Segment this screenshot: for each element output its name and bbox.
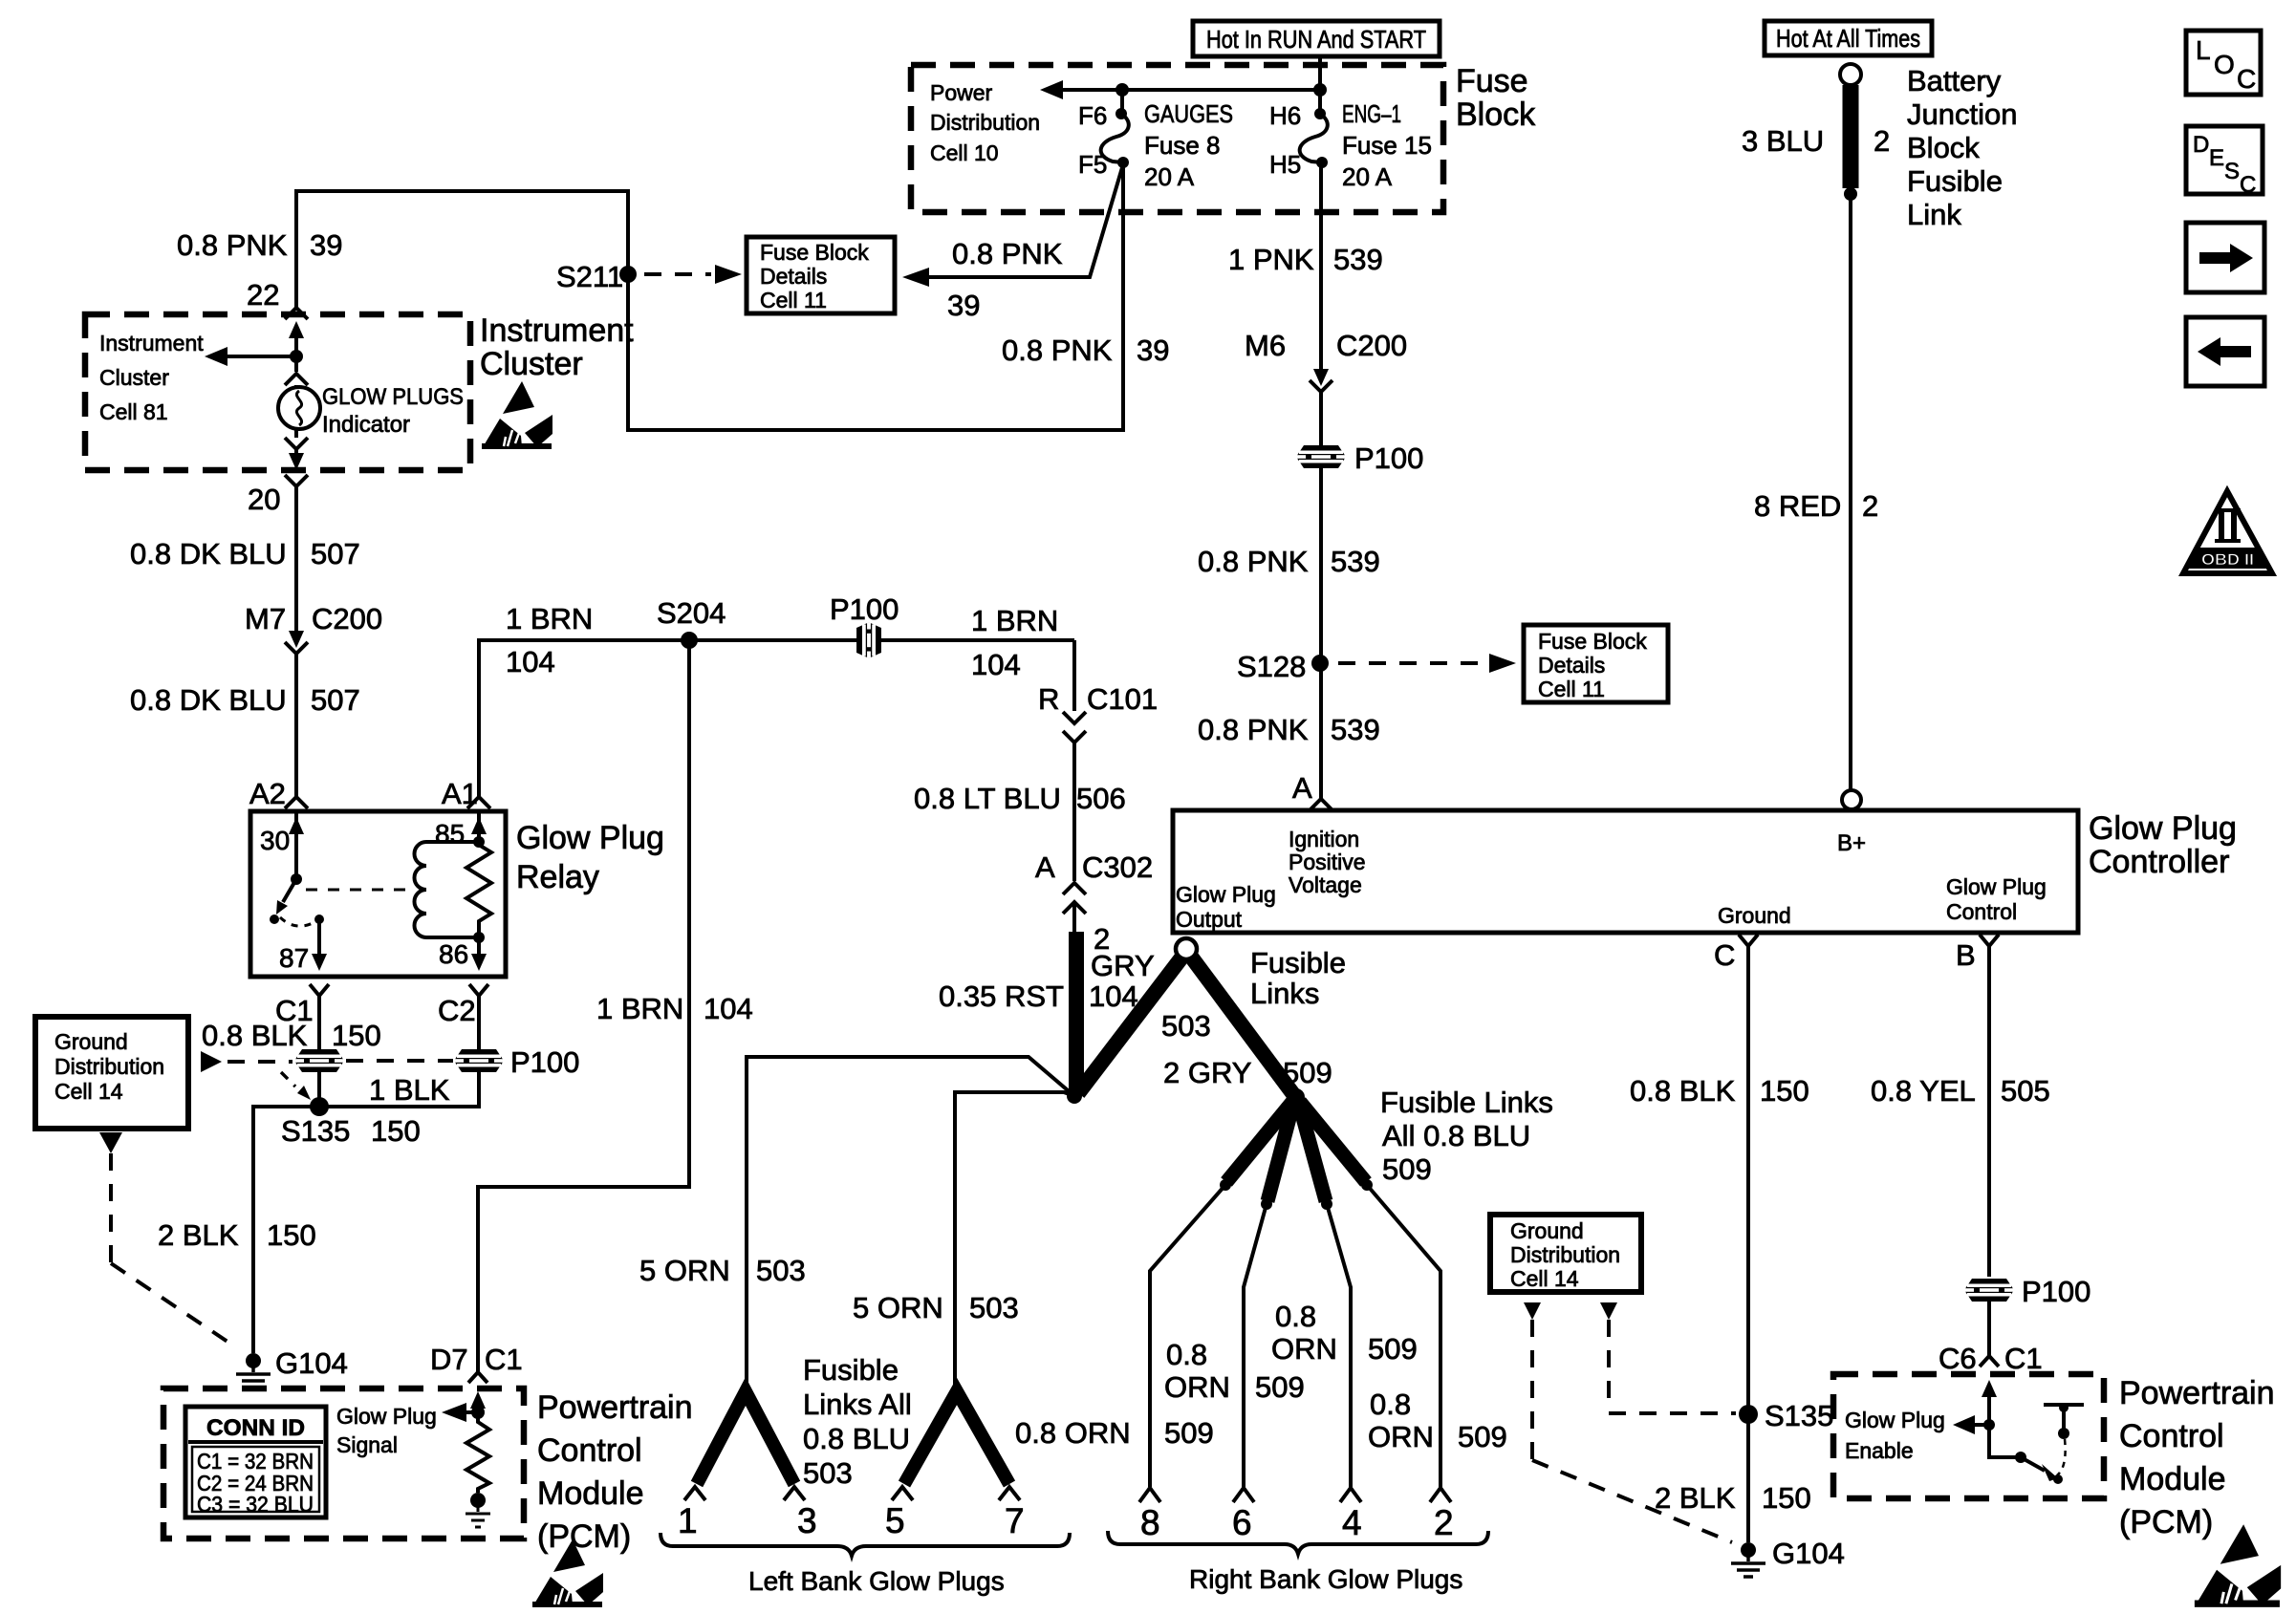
wire 0.8 ORN 509 to plug 4 bbox=[1327, 1204, 1361, 1502]
svg-text:Details: Details bbox=[760, 264, 827, 289]
svg-text:Distribution: Distribution bbox=[930, 110, 1040, 135]
svg-text:30: 30 bbox=[260, 826, 290, 855]
svg-text:All 0.8 BLU: All 0.8 BLU bbox=[1382, 1119, 1530, 1152]
svg-text:B: B bbox=[1956, 938, 1976, 972]
pin A of controller bbox=[1292, 771, 1332, 810]
svg-text:ORN: ORN bbox=[1164, 1370, 1230, 1404]
svg-text:Cell 10: Cell 10 bbox=[930, 140, 999, 165]
svg-text:(PCM): (PCM) bbox=[2119, 1504, 2213, 1540]
dashed arrow to G104 (right) bbox=[1524, 1302, 1732, 1542]
svg-text:5 ORN: 5 ORN bbox=[639, 1254, 730, 1287]
svg-text:F5: F5 bbox=[1078, 150, 1107, 179]
svg-text:(PCM): (PCM) bbox=[537, 1518, 631, 1555]
splice S135 (right) bbox=[1739, 1399, 1833, 1432]
thick fusible link 503 to J1 bbox=[1078, 957, 1182, 1093]
svg-text:Fuse 8: Fuse 8 bbox=[1144, 131, 1221, 160]
svg-text:B+: B+ bbox=[1837, 830, 1866, 856]
label 5 ORN 503 (wire 1-3) bbox=[639, 1254, 806, 1287]
svg-text:507: 507 bbox=[311, 683, 360, 717]
plug terminal forks 5 and 7 bbox=[892, 1487, 1020, 1500]
box Fuse Block Details Cell 11 (left) bbox=[747, 237, 895, 313]
label 2 GRY 104 bbox=[1089, 922, 1155, 1013]
arrow wire 0.8 PNK 39 from F5 into details box bbox=[902, 164, 1123, 322]
wire S135 left and down to G104 bbox=[253, 1107, 319, 1353]
wire from Hot box down to H6 bbox=[1318, 56, 1322, 113]
svg-text:505: 505 bbox=[2001, 1074, 2050, 1108]
svg-text:O: O bbox=[2214, 50, 2235, 79]
wire 0.8 LT BLU 506 bbox=[1072, 742, 1076, 881]
svg-text:Glow Plug: Glow Plug bbox=[516, 820, 664, 856]
fusible link to plug 2 bbox=[1300, 1102, 1373, 1191]
svg-text:Ground: Ground bbox=[1510, 1218, 1584, 1243]
text Fusible Links (at output) bbox=[1250, 946, 1346, 1010]
svg-text:2 BLK: 2 BLK bbox=[1655, 1481, 1736, 1515]
relay resistor bbox=[466, 845, 491, 935]
box Hot At All Times bbox=[1765, 21, 1932, 55]
svg-text:503: 503 bbox=[756, 1254, 806, 1287]
pcm right dashed arc bbox=[2057, 1439, 2066, 1475]
wire 0.8 ORN 509 to plug 2 bbox=[1367, 1185, 1451, 1502]
svg-text:0.8 LT BLU: 0.8 LT BLU bbox=[914, 782, 1061, 815]
svg-text:Control: Control bbox=[2119, 1418, 2224, 1454]
wire P100 to S135 bbox=[317, 1072, 321, 1107]
svg-text:C3 = 32 BLU: C3 = 32 BLU bbox=[197, 1492, 314, 1517]
svg-text:M6: M6 bbox=[1245, 329, 1286, 362]
svg-text:Module: Module bbox=[2119, 1461, 2226, 1497]
svg-text:8: 8 bbox=[1140, 1503, 1160, 1542]
wire circuit 39 loop: instrument cluster pin 22 to fuse F5 bbox=[296, 164, 1123, 430]
svg-text:Powertrain: Powertrain bbox=[537, 1389, 693, 1426]
svg-text:39: 39 bbox=[310, 228, 342, 262]
svg-text:2: 2 bbox=[1434, 1503, 1454, 1542]
wire 8 RED 2 down to B+ bbox=[1849, 194, 1852, 790]
svg-text:Cell 11: Cell 11 bbox=[1538, 677, 1605, 701]
label 8 RED 2 bbox=[1754, 489, 1878, 523]
text Power Distribution Cell 10 bbox=[930, 80, 1040, 165]
svg-text:M7: M7 bbox=[245, 602, 286, 635]
svg-text:509: 509 bbox=[1382, 1152, 1432, 1186]
icon LOC bbox=[2186, 31, 2261, 95]
svg-text:Left Bank Glow Plugs: Left Bank Glow Plugs bbox=[748, 1566, 1005, 1596]
junction J1 of 503 links bbox=[1067, 1088, 1082, 1104]
svg-text:R: R bbox=[1038, 682, 1059, 716]
svg-text:Cell 14: Cell 14 bbox=[54, 1079, 123, 1104]
wire dot to indicator with chevron bbox=[285, 356, 308, 387]
powertrain control module dashed box (left) bbox=[163, 1388, 524, 1539]
brace Right Bank Glow Plugs bbox=[1108, 1531, 1488, 1594]
label 1 BLK 150 bbox=[369, 1073, 450, 1148]
fusible link to plug 6 bbox=[1261, 1104, 1293, 1210]
connector C6 C1 bbox=[1939, 1342, 2043, 1375]
dashed arrow S211 to fuse block details bbox=[644, 265, 742, 284]
pcm left ground bbox=[466, 1493, 490, 1527]
svg-text:F6: F6 bbox=[1078, 101, 1107, 130]
svg-text:539: 539 bbox=[1331, 713, 1380, 746]
wire 1 BLK 150 from C2 P100 down and left to S135 bbox=[319, 1072, 479, 1107]
svg-text:20 A: 20 A bbox=[1144, 162, 1195, 191]
relay coil bbox=[415, 842, 480, 937]
svg-text:503: 503 bbox=[1161, 1009, 1211, 1043]
svg-text:Output: Output bbox=[1176, 907, 1243, 932]
label 0.8 BLK 150 bbox=[1630, 1074, 1809, 1108]
svg-text:Glow Plug: Glow Plug bbox=[336, 1404, 437, 1429]
pcm right switch arm bbox=[2015, 1452, 2063, 1484]
svg-text:S: S bbox=[2224, 159, 2240, 184]
terminal B+ bbox=[1837, 790, 1866, 856]
plug numbers 8 6 4 2 bbox=[1140, 1503, 1454, 1542]
wire 0.8 DK BLU 507 cluster to C200 bbox=[294, 486, 298, 631]
svg-text:Glow Plug: Glow Plug bbox=[1946, 874, 2047, 899]
pin A2 with chevron bbox=[249, 777, 308, 810]
svg-text:Glow Plug: Glow Plug bbox=[1845, 1408, 1945, 1432]
svg-text:0.8 PNK: 0.8 PNK bbox=[1198, 545, 1309, 578]
thick fusible link V plugs 1-3 bbox=[697, 1391, 794, 1484]
svg-text:507: 507 bbox=[311, 537, 360, 570]
grommet P100 left (C1 wire) bbox=[294, 1049, 344, 1072]
glow plug relay box bbox=[250, 811, 506, 977]
svg-text:1 BRN: 1 BRN bbox=[596, 992, 683, 1025]
label 0.8 PNK 39 (top left) bbox=[177, 228, 342, 262]
svg-text:Hot In RUN And START: Hot In RUN And START bbox=[1206, 25, 1426, 54]
svg-text:ENG–1: ENG–1 bbox=[1342, 99, 1401, 128]
text Glow Plug Signal bbox=[336, 1404, 437, 1457]
svg-text:7: 7 bbox=[1005, 1501, 1025, 1540]
svg-text:8 RED: 8 RED bbox=[1754, 489, 1841, 523]
wire 0.8 DK BLU 507 C200 to relay A2 bbox=[294, 654, 298, 797]
wire 1 BRN 104 from S204 down to PCM D7 bbox=[478, 640, 689, 1372]
connector R C101 bbox=[1038, 640, 1158, 742]
svg-text:4: 4 bbox=[1342, 1503, 1362, 1542]
pin C1 chevron bbox=[275, 984, 329, 1027]
svg-text:Cell 81: Cell 81 bbox=[99, 399, 168, 424]
svg-text:Indicator: Indicator bbox=[322, 412, 410, 438]
svg-text:0.8 BLU: 0.8 BLU bbox=[803, 1422, 910, 1455]
svg-text:20 A: 20 A bbox=[1342, 162, 1393, 191]
title Powertrain Control Module PCM (right) bbox=[2119, 1375, 2275, 1540]
dashed wire between P100 grommets bbox=[346, 1059, 453, 1063]
box Hot In RUN And START bbox=[1193, 21, 1440, 56]
pcm left resistor bbox=[466, 1412, 489, 1493]
esd symbol instrument cluster bbox=[482, 381, 552, 449]
svg-text:0.8: 0.8 bbox=[1370, 1388, 1411, 1421]
svg-text:104: 104 bbox=[971, 648, 1021, 681]
svg-text:509: 509 bbox=[1458, 1420, 1507, 1453]
label 0.8 ORN 509 (plug 2) bbox=[1368, 1388, 1507, 1453]
box Fuse Block Details Cell 11 (right) bbox=[1524, 625, 1668, 702]
svg-text:ORN: ORN bbox=[1368, 1420, 1434, 1453]
svg-text:Fuse Block: Fuse Block bbox=[1538, 629, 1647, 654]
wire 0.8 PNK 539 to S128 bbox=[1319, 468, 1323, 799]
svg-text:Fusible: Fusible bbox=[1907, 164, 2003, 198]
svg-text:104: 104 bbox=[1089, 979, 1138, 1013]
svg-text:Links: Links bbox=[1250, 977, 1319, 1010]
svg-text:ORN: ORN bbox=[1271, 1332, 1337, 1366]
svg-text:Distribution: Distribution bbox=[1510, 1242, 1620, 1267]
relay pin 30 bbox=[260, 811, 304, 879]
svg-text:0.8 BLK: 0.8 BLK bbox=[1630, 1074, 1736, 1108]
svg-text:1 BRN: 1 BRN bbox=[506, 602, 593, 635]
connector A C302 bbox=[1035, 850, 1153, 914]
wire to PCM C6 bbox=[1987, 1302, 1991, 1356]
connector chevron at cluster pin 22 bbox=[285, 308, 308, 319]
wire 0.8 BLK 150 controller ground to S135 bbox=[1746, 946, 1750, 1407]
svg-text:509: 509 bbox=[1164, 1416, 1214, 1450]
svg-text:22: 22 bbox=[247, 278, 279, 312]
svg-text:Cell 11: Cell 11 bbox=[760, 288, 827, 312]
grommet P100 (1 BRN wire) bbox=[830, 592, 899, 658]
dashed arrow to S135 (right) bbox=[1600, 1302, 1736, 1413]
svg-text:OBD II: OBD II bbox=[2201, 550, 2254, 569]
dashed arrow S128 to fuse block details bbox=[1338, 654, 1516, 673]
svg-text:0.8 PNK: 0.8 PNK bbox=[952, 237, 1063, 270]
esd symbol bottom right bbox=[2195, 1524, 2281, 1607]
title Glow Plug Controller bbox=[2089, 810, 2237, 880]
svg-text:0.8 PNK: 0.8 PNK bbox=[1002, 334, 1113, 367]
wire 1 BRN 104 from A1 up to S204 and P100 bbox=[479, 640, 1074, 797]
label 0.8 DK BLU 507 bbox=[130, 537, 360, 570]
label 3 BLU 2 bbox=[1742, 124, 1890, 158]
title Fuse Block bbox=[1456, 63, 1536, 133]
svg-text:Powertrain: Powertrain bbox=[2119, 1375, 2275, 1411]
svg-text:Instrument: Instrument bbox=[99, 331, 204, 355]
wire 0.8 ORN 509 to plug 8 bbox=[1139, 1185, 1225, 1502]
label 0.8 DK BLU 507 (second) bbox=[130, 683, 360, 717]
svg-text:S211: S211 bbox=[556, 260, 623, 293]
svg-text:539: 539 bbox=[1331, 545, 1380, 578]
svg-text:Enable: Enable bbox=[1845, 1438, 1914, 1463]
svg-text:Controller: Controller bbox=[2089, 844, 2229, 880]
wire 0.8 BLK 150 relay C1 to P100 bbox=[317, 996, 321, 1049]
title Glow Plug Relay bbox=[516, 820, 664, 895]
svg-text:6: 6 bbox=[1232, 1503, 1252, 1542]
text Battery Junction Block Fusible Link bbox=[1907, 64, 2017, 231]
splice S204 bbox=[657, 596, 726, 649]
svg-text:150: 150 bbox=[1762, 1481, 1811, 1515]
svg-text:150: 150 bbox=[267, 1218, 316, 1252]
svg-text:GAUGES: GAUGES bbox=[1144, 99, 1233, 128]
svg-text:0.8 PNK: 0.8 PNK bbox=[177, 228, 288, 262]
svg-text:Ignition: Ignition bbox=[1289, 827, 1359, 851]
svg-text:G104: G104 bbox=[1772, 1537, 1845, 1570]
svg-text:GLOW PLUGS: GLOW PLUGS bbox=[322, 384, 464, 410]
pin A1 chevron bbox=[442, 777, 490, 810]
svg-text:Fusible: Fusible bbox=[1250, 946, 1346, 979]
plug numbers 1 3 5 7 bbox=[678, 1501, 1025, 1540]
connector chevron below cluster bbox=[285, 475, 308, 486]
svg-text:Link: Link bbox=[1907, 198, 1961, 231]
svg-text:85: 85 bbox=[435, 819, 465, 849]
thin wire J1 to left bank plugs 1-3 bbox=[747, 1057, 1074, 1388]
svg-text:Cluster: Cluster bbox=[480, 346, 583, 382]
svg-text:C200: C200 bbox=[312, 602, 382, 635]
svg-text:503: 503 bbox=[803, 1456, 853, 1490]
label 0.8 PNK 539 (second) bbox=[1198, 713, 1380, 746]
svg-text:5 ORN: 5 ORN bbox=[853, 1291, 943, 1324]
svg-text:5: 5 bbox=[885, 1501, 905, 1540]
svg-text:2 GRY: 2 GRY bbox=[1163, 1056, 1251, 1089]
svg-text:GRY: GRY bbox=[1091, 949, 1155, 982]
text Glow Plug Enable bbox=[1845, 1408, 1945, 1463]
svg-text:P100: P100 bbox=[830, 592, 899, 626]
powertrain control module dashed box (right) bbox=[1833, 1374, 2104, 1498]
svg-text:A2: A2 bbox=[249, 777, 286, 810]
svg-text:539: 539 bbox=[1333, 243, 1383, 276]
text Glow Plug Control bbox=[1946, 874, 2047, 924]
wire to P100 bbox=[1319, 392, 1323, 445]
svg-text:Cell 14: Cell 14 bbox=[1510, 1266, 1579, 1291]
icon OBD II triangle bbox=[2183, 491, 2272, 573]
svg-text:E: E bbox=[2209, 145, 2224, 171]
relay dashed actuation line bbox=[306, 889, 409, 892]
ground G104 (right) bbox=[1731, 1537, 1845, 1577]
glow plug output terminal circle bbox=[1176, 938, 1197, 959]
svg-text:Ground: Ground bbox=[54, 1029, 128, 1054]
label 2 BLK 150 bbox=[1655, 1481, 1811, 1515]
wire into cluster with up arrow bbox=[289, 321, 304, 356]
svg-text:P100: P100 bbox=[1354, 441, 1423, 475]
svg-text:P100: P100 bbox=[510, 1045, 579, 1079]
junction J2 of 509 links bbox=[1288, 1088, 1305, 1106]
svg-text:0.8 DK BLU: 0.8 DK BLU bbox=[130, 537, 287, 570]
label 1 BRN 104 (right of P100) bbox=[971, 604, 1058, 681]
svg-text:1 PNK: 1 PNK bbox=[1228, 243, 1314, 276]
splice S135 (left) bbox=[281, 1097, 350, 1148]
svg-text:509: 509 bbox=[1368, 1332, 1418, 1366]
arrow wire to power distribution bbox=[1040, 80, 1327, 99]
pin B chevron bbox=[1956, 935, 1999, 972]
svg-text:Block: Block bbox=[1456, 97, 1536, 133]
label 0.8 ORN 509 (plug 8) bbox=[1015, 1416, 1214, 1450]
svg-text:87: 87 bbox=[279, 943, 309, 973]
svg-text:509: 509 bbox=[1255, 1370, 1305, 1404]
wire 0.8 YEL 505 controller to P100 bbox=[1987, 946, 1991, 1277]
box Ground Distribution Cell 14 (left) bbox=[35, 1017, 188, 1129]
svg-text:0.8 DK BLU: 0.8 DK BLU bbox=[130, 683, 287, 717]
fuse GAUGES Fuse 8 20 A bbox=[1078, 99, 1233, 191]
title Powertrain Control Module PCM (left) bbox=[537, 1389, 693, 1555]
plug terminal forks 1 and 3 bbox=[684, 1487, 805, 1500]
relay pin 85 bbox=[435, 811, 487, 849]
svg-text:C2: C2 bbox=[438, 994, 476, 1027]
svg-text:3: 3 bbox=[797, 1501, 817, 1540]
indicator lamp GLOW PLUGS bbox=[278, 384, 464, 438]
fuse ENG-1 Fuse 15 20 A bbox=[1269, 99, 1432, 191]
svg-text:S128: S128 bbox=[1237, 650, 1306, 683]
relay switch common dot bbox=[291, 873, 302, 885]
svg-text:104: 104 bbox=[704, 992, 753, 1025]
svg-text:Hot At All Times: Hot At All Times bbox=[1776, 24, 1920, 53]
svg-text:H5: H5 bbox=[1269, 150, 1301, 179]
dashed branch to S135 with arrow bbox=[281, 1072, 311, 1100]
svg-text:150: 150 bbox=[1760, 1074, 1809, 1108]
brace Left Bank Glow Plugs bbox=[661, 1533, 1070, 1596]
dashed arrow ground distribution down bbox=[99, 1132, 236, 1347]
svg-text:Control: Control bbox=[537, 1432, 642, 1469]
relay switch arm with arrow bbox=[270, 879, 296, 924]
label 0.8 PNK 539 bbox=[1198, 545, 1380, 578]
junction dot below link bbox=[1844, 187, 1857, 201]
relay pin 86 bbox=[439, 932, 487, 971]
battery junction block fusible link terminal circle bbox=[1840, 64, 1861, 85]
svg-text:Fusible Links: Fusible Links bbox=[1380, 1086, 1553, 1119]
svg-text:150: 150 bbox=[371, 1114, 421, 1148]
svg-text:0.35 RST: 0.35 RST bbox=[939, 979, 1064, 1013]
svg-text:0.8 YEL: 0.8 YEL bbox=[1871, 1074, 1976, 1108]
svg-text:L: L bbox=[2196, 35, 2211, 65]
svg-text:Cluster: Cluster bbox=[99, 365, 169, 390]
svg-text:20: 20 bbox=[248, 483, 280, 516]
svg-text:1 BRN: 1 BRN bbox=[971, 604, 1058, 637]
pin C chevron bbox=[1714, 935, 1758, 972]
svg-text:Right Bank Glow Plugs: Right Bank Glow Plugs bbox=[1189, 1564, 1462, 1594]
svg-text:Control: Control bbox=[1946, 899, 2017, 924]
svg-text:C101: C101 bbox=[1087, 682, 1158, 716]
svg-text:Module: Module bbox=[537, 1475, 644, 1512]
fusible link to plug 8 bbox=[1220, 1102, 1292, 1191]
label 0.8 BLK 150 bbox=[202, 1019, 381, 1052]
fuse block dashed box bbox=[911, 65, 1443, 212]
connector M6 C200 bbox=[1245, 329, 1407, 392]
pcm right input arrow bbox=[1982, 1380, 1997, 1425]
fusible link to plug 4 bbox=[1299, 1104, 1332, 1210]
svg-text:3 BLU: 3 BLU bbox=[1742, 124, 1824, 158]
title Instrument Cluster bbox=[480, 312, 634, 382]
svg-text:Block: Block bbox=[1907, 131, 1980, 164]
label 0.8 ORN 509 (plug 6) bbox=[1164, 1338, 1305, 1404]
svg-text:D: D bbox=[2193, 132, 2209, 158]
label 2 BLK 150 bbox=[158, 1218, 316, 1252]
instrument cluster dashed box bbox=[85, 314, 470, 470]
svg-text:Power: Power bbox=[930, 80, 993, 105]
icon arrow left bbox=[2186, 317, 2264, 386]
svg-text:Links All: Links All bbox=[803, 1388, 912, 1421]
svg-text:1: 1 bbox=[678, 1501, 698, 1540]
svg-text:150: 150 bbox=[332, 1019, 381, 1052]
svg-text:104: 104 bbox=[506, 645, 555, 678]
svg-text:Voltage: Voltage bbox=[1289, 872, 1362, 897]
svg-text:Junction: Junction bbox=[1907, 97, 2017, 131]
icon DESC bbox=[2186, 126, 2263, 198]
svg-text:Fuse: Fuse bbox=[1456, 63, 1528, 99]
thick wire 2 GRY 104 / 0.35 RST bbox=[1072, 902, 1076, 932]
svg-text:CONN ID: CONN ID bbox=[206, 1415, 305, 1441]
relay switch dashed arc bbox=[280, 917, 316, 926]
svg-text:Battery: Battery bbox=[1907, 64, 2002, 97]
svg-text:Details: Details bbox=[1538, 653, 1605, 678]
svg-text:A: A bbox=[1292, 771, 1312, 805]
svg-text:Glow Plug: Glow Plug bbox=[1176, 882, 1276, 907]
label 1 BRN 104 (left of S204) bbox=[506, 602, 593, 678]
svg-text:Instrument: Instrument bbox=[480, 312, 634, 349]
svg-text:Glow Plug: Glow Plug bbox=[2089, 810, 2237, 847]
esd symbol below left pcm bbox=[532, 1539, 603, 1607]
svg-text:D7: D7 bbox=[430, 1343, 468, 1376]
pcm right switch wire bbox=[1989, 1425, 2021, 1457]
thick fusible link V plugs 5-7 bbox=[904, 1391, 1009, 1484]
label 0.8 PNK 39 (on wire to S211 loop) bbox=[1002, 334, 1169, 367]
text Fusible Links All 0.8 BLU 509 bbox=[1380, 1086, 1553, 1186]
label 1 BRN 104 (vertical run) bbox=[596, 992, 753, 1025]
label 0.8 LT BLU 506 bbox=[914, 782, 1126, 815]
svg-text:C302: C302 bbox=[1082, 850, 1153, 884]
svg-text:86: 86 bbox=[439, 939, 468, 969]
label 0.8 ORN 509 (plug 4) bbox=[1271, 1300, 1418, 1366]
glow plug controller box bbox=[1173, 810, 2078, 933]
svg-text:C: C bbox=[1714, 938, 1735, 972]
svg-text:2 BLK: 2 BLK bbox=[158, 1218, 239, 1252]
svg-text:0.8: 0.8 bbox=[1166, 1338, 1207, 1371]
wire below indicator with chevron and down arrow bbox=[285, 429, 308, 470]
